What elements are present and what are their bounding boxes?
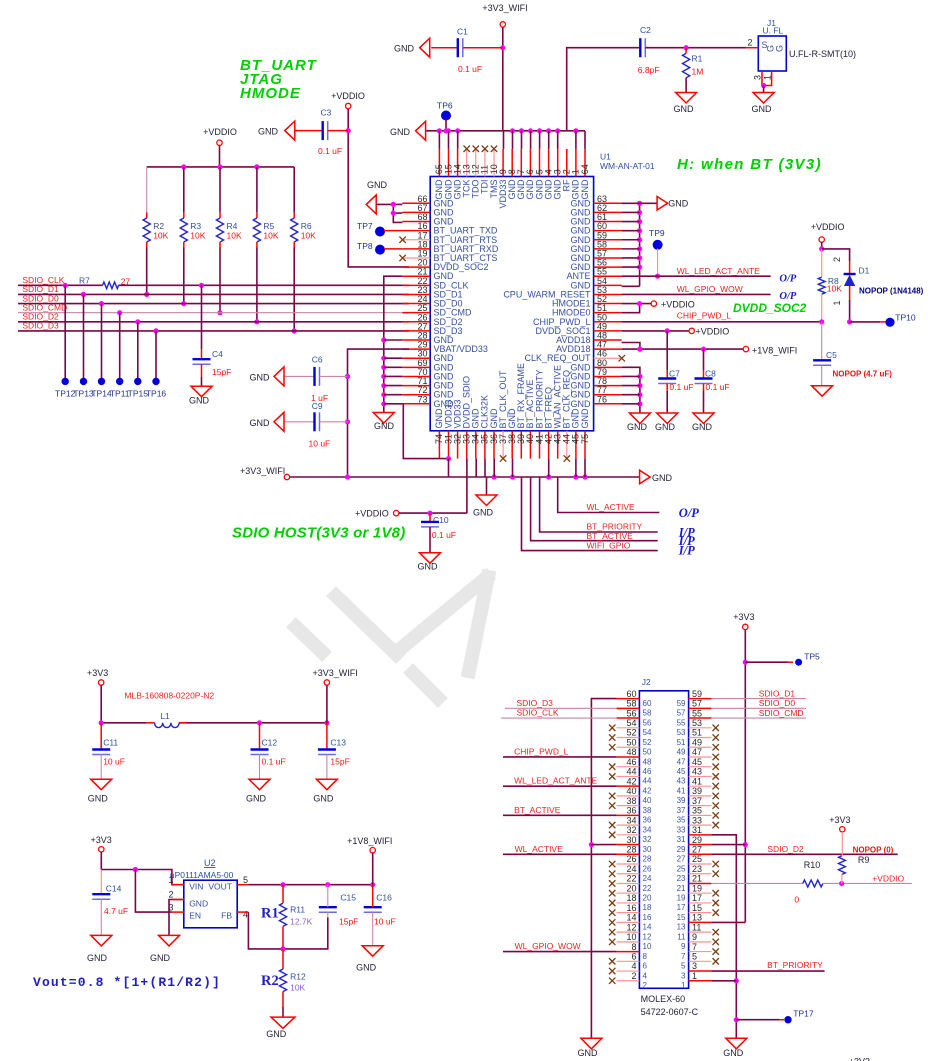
ground GND left bus — [373, 413, 394, 424]
node pin29 junction — [743, 842, 748, 847]
node right GND bus — [637, 210, 642, 215]
pin 53 of J2 (right) — [689, 727, 712, 729]
pin 17 (BT_UART_RTS) left — [402, 239, 430, 241]
svg-text:35: 35 — [692, 806, 702, 816]
node R3 bottom — [181, 301, 186, 306]
svg-text:1M: 1M — [692, 67, 704, 77]
node top bus — [555, 128, 560, 133]
pin 34 (GND) bottom — [475, 431, 477, 459]
node R11 top — [280, 882, 285, 887]
svg-text:50: 50 — [626, 737, 636, 747]
svg-text:TP6: TP6 — [437, 101, 453, 111]
svg-text:GND: GND — [674, 104, 695, 114]
ground GND at R12 — [271, 1017, 295, 1028]
svg-text:SDIO_D0: SDIO_D0 — [759, 698, 796, 708]
pin 16 of J2 (left) — [617, 912, 640, 914]
pin 50 of J2 (left) — [617, 746, 640, 748]
svg-text:+VDDIO: +VDDIO — [355, 509, 389, 519]
svg-text:47: 47 — [692, 747, 702, 757]
svg-text:33: 33 — [692, 815, 702, 825]
node right GND bus — [637, 219, 642, 224]
node right GND bus — [637, 237, 642, 242]
svg-text:16: 16 — [626, 903, 636, 913]
wire +3V3_WIFI down — [326, 685, 328, 723]
pin 73 (GND) left — [402, 403, 430, 405]
svg-text:GND: GND — [313, 794, 334, 804]
node right GND bus — [637, 264, 642, 269]
node row66 — [391, 202, 396, 207]
pin 58 of J2 (left) — [617, 707, 640, 709]
svg-text:20: 20 — [643, 894, 652, 903]
testpoint TP13 — [80, 378, 87, 385]
svg-text:6: 6 — [643, 962, 648, 971]
svg-text:GND: GND — [150, 953, 171, 963]
svg-text:+VDDIO: +VDDIO — [811, 222, 845, 232]
pin 55 (ANTE) right — [594, 275, 622, 277]
svg-text:59: 59 — [677, 699, 686, 708]
svg-text:+VDDIO: +VDDIO — [331, 91, 365, 101]
svg-text:40: 40 — [643, 796, 652, 805]
svg-text:GND: GND — [189, 396, 210, 406]
svg-text:O/P: O/P — [779, 274, 797, 285]
svg-text:58: 58 — [626, 699, 636, 709]
node J1 ground junction — [761, 83, 766, 88]
svg-text:+VDDIO: +VDDIO — [203, 127, 237, 137]
svg-text:GND: GND — [723, 1048, 744, 1058]
pin 58 (GND) right — [594, 248, 622, 250]
pin 22 of J2 (left) — [617, 882, 640, 884]
node R4 bottom — [217, 310, 222, 315]
node C8 junction — [701, 347, 706, 352]
node top bus — [446, 128, 451, 133]
svg-text:26: 26 — [643, 864, 652, 873]
wire right GND bus rows 63-56,54 — [622, 285, 640, 287]
svg-text:+3V3: +3V3 — [849, 1057, 870, 1061]
svg-text:MLB-160808-0220P-N2: MLB-160808-0220P-N2 — [124, 691, 214, 701]
pin 37 of J2 (right) — [689, 805, 712, 807]
svg-text:4: 4 — [243, 910, 248, 920]
wire R10 to pin 21 — [711, 882, 802, 884]
pin 57 of J2 (right) — [689, 707, 712, 709]
pin 45 (GND) bottom — [575, 431, 577, 459]
pin 54 of J2 (left) — [617, 727, 640, 729]
wire CHIP_PWD_L to J2 — [503, 756, 617, 758]
svg-text:12.7K: 12.7K — [290, 917, 313, 927]
wire GND bus row — [622, 385, 640, 387]
wire GND bus to pin — [384, 385, 403, 387]
svg-text:GND: GND — [580, 179, 590, 200]
wire GND bus row — [622, 403, 640, 405]
pin 29 of J2 (right) — [689, 844, 712, 846]
pin 14 of J2 (left) — [617, 921, 640, 923]
pin 35 of J2 (right) — [689, 814, 712, 816]
wire CHIP_PWD_L — [622, 321, 822, 323]
wire GND bus row — [622, 230, 640, 232]
svg-text:CHIP_PWD_L: CHIP_PWD_L — [677, 311, 732, 321]
svg-text:TP16: TP16 — [146, 389, 167, 399]
svg-text:C4: C4 — [212, 349, 223, 359]
wire pin60 GND vertical — [591, 699, 616, 1039]
svg-text:31: 31 — [677, 835, 686, 844]
wire bottom pin riser — [584, 459, 586, 477]
resistor R5 — [256, 167, 258, 213]
svg-text:48: 48 — [626, 747, 636, 757]
svg-text:17: 17 — [677, 903, 686, 912]
svg-text:19: 19 — [677, 894, 686, 903]
wire U2 GND pin — [169, 900, 184, 936]
pin 24 (SD_D0) left — [402, 303, 430, 305]
svg-text:+3V3: +3V3 — [91, 835, 112, 845]
svg-text:EN: EN — [189, 911, 201, 921]
pin 20 (DVDD_SOC2) left — [402, 266, 430, 268]
pin 42 (BT_FREQ) bottom — [548, 431, 550, 459]
pin 70 (GND) left — [402, 375, 430, 377]
pin 10 (TMS) top — [493, 149, 495, 177]
wire to TP14 — [101, 304, 103, 382]
node top bus — [546, 128, 551, 133]
svg-text:17: 17 — [692, 893, 702, 903]
svg-text:TP5: TP5 — [804, 652, 820, 662]
pin 15 of J2 (right) — [689, 912, 712, 914]
svg-text:13: 13 — [677, 923, 686, 932]
svg-text:28: 28 — [626, 844, 636, 854]
pin 65 (GND) top — [438, 149, 440, 177]
svg-text:51: 51 — [692, 728, 702, 738]
svg-text:21: 21 — [677, 884, 686, 893]
svg-text:4.7 uF: 4.7 uF — [104, 906, 128, 916]
pin 46 (CLK_REQ_OUT) right — [594, 357, 622, 359]
wire pin13 link — [711, 921, 745, 923]
ground GND at C12 — [249, 779, 270, 790]
node C12 top — [257, 720, 262, 725]
svg-text:57: 57 — [677, 709, 686, 718]
svg-text:2: 2 — [631, 971, 636, 981]
svg-text:27: 27 — [677, 855, 686, 864]
svg-text:R12: R12 — [290, 972, 306, 982]
svg-text:22: 22 — [643, 884, 652, 893]
pin 74 (GND) bottom — [438, 431, 440, 459]
node bottom bus — [573, 474, 578, 479]
svg-text:39: 39 — [677, 796, 686, 805]
svg-text:29: 29 — [677, 845, 686, 854]
node AVDD18 junction — [637, 347, 642, 352]
svg-text:H: when BT (3V3): H: when BT (3V3) — [677, 156, 822, 173]
pin 69 (GND) left — [402, 366, 430, 368]
svg-text:0.1 uF: 0.1 uF — [669, 382, 693, 392]
pin 48 (AVDD18) right — [594, 339, 622, 341]
resistor R1 — [685, 48, 687, 54]
ground GND at C13 — [316, 779, 337, 790]
svg-text:10K: 10K — [190, 231, 205, 241]
wire +3V3 to VIN — [100, 852, 102, 870]
svg-text:29: 29 — [692, 835, 702, 845]
node bottom bus — [492, 474, 497, 479]
pin 5 (GND) top — [539, 149, 541, 177]
node left GND bus — [381, 365, 386, 370]
svg-text:36: 36 — [643, 816, 652, 825]
wire pin30 link — [591, 844, 616, 846]
node C7 junction — [665, 328, 670, 333]
svg-text:0.1 uF: 0.1 uF — [432, 530, 456, 540]
svg-text:I/P: I/P — [678, 544, 695, 558]
svg-text:18: 18 — [626, 893, 636, 903]
svg-text:SDIO_D2: SDIO_D2 — [767, 844, 804, 854]
svg-text:GND: GND — [88, 794, 109, 804]
pin 52 (HMODE1) right — [594, 303, 622, 305]
svg-text:GND: GND — [473, 508, 494, 518]
resistor R11 — [282, 885, 284, 903]
svg-text:53: 53 — [677, 728, 686, 737]
pin 33 (DVDD_SDIO) bottom — [466, 431, 468, 459]
svg-text:R1: R1 — [692, 54, 703, 64]
svg-text:+3V3_WIFI: +3V3_WIFI — [240, 466, 285, 476]
svg-text:44: 44 — [643, 777, 652, 786]
pin 42 of J2 (left) — [617, 785, 640, 787]
node SDIO_CMD testpoint junction — [117, 310, 122, 315]
svg-text:R7: R7 — [79, 275, 90, 285]
wire GND bus row — [622, 248, 640, 250]
svg-text:C16: C16 — [376, 893, 392, 903]
wire R4 to SDIO line — [219, 248, 221, 313]
svg-text:GND: GND — [418, 562, 439, 572]
pin 59 (GND) right — [594, 239, 622, 241]
pin 55 of J2 (right) — [689, 717, 712, 719]
svg-text:30: 30 — [626, 835, 636, 845]
wire top pin riser — [539, 131, 541, 149]
svg-text:56: 56 — [626, 708, 636, 718]
wire bottom pin riser — [512, 459, 514, 477]
wire pin 9 riser — [503, 131, 505, 149]
node right GND bus — [637, 246, 642, 251]
pin 17 of J2 (right) — [689, 902, 712, 904]
wire bottom pin riser — [493, 459, 495, 477]
wire pin31 GND vertical — [711, 835, 736, 1038]
svg-text:42: 42 — [626, 776, 636, 786]
wire top pin riser — [575, 131, 577, 149]
pin 7 (GND) top — [520, 149, 522, 177]
svg-text:47: 47 — [677, 757, 686, 766]
svg-text:32: 32 — [626, 825, 636, 835]
node top bus — [537, 128, 542, 133]
svg-text:11: 11 — [692, 922, 701, 932]
pin 12 of J2 (left) — [617, 931, 640, 933]
svg-text:FB: FB — [221, 911, 232, 921]
testpoint TP16 — [152, 378, 159, 385]
svg-text:10K: 10K — [290, 983, 305, 993]
svg-text:38: 38 — [626, 796, 636, 806]
wire GND bus to pin — [384, 366, 403, 368]
pin 39 (BT_RX_FRAME) bottom — [520, 431, 522, 459]
wire +1V8_WIFI riser — [372, 853, 374, 885]
svg-text:VOUT: VOUT — [208, 882, 232, 892]
wire J1 to ground — [763, 86, 765, 93]
svg-text:49: 49 — [692, 737, 702, 747]
wire TP5 — [745, 661, 788, 663]
node D1 bottom — [847, 319, 852, 324]
svg-text:34: 34 — [643, 825, 652, 834]
pin 2 of J2 (left) — [617, 980, 640, 982]
node C15 top — [325, 882, 330, 887]
node top bus — [528, 128, 533, 133]
power +VDDIO at HMODE — [651, 301, 656, 306]
wire SDIO_CLK — [18, 284, 103, 286]
node SDIO_D3 testpoint junction — [153, 328, 158, 333]
svg-text:SDIO_D3: SDIO_D3 — [517, 698, 554, 708]
svg-text:WL_GPIO_WOW: WL_GPIO_WOW — [515, 941, 581, 951]
svg-text:NOPOP (0): NOPOP (0) — [853, 846, 894, 855]
svg-text:20: 20 — [626, 883, 636, 893]
svg-text:28: 28 — [643, 855, 652, 864]
wire DVDD_SOC1 to +VDDIO — [622, 330, 689, 332]
ground GND at C11 — [91, 779, 112, 790]
wire R6 to SDIO line — [293, 248, 295, 331]
svg-text:C14: C14 — [106, 884, 122, 894]
svg-text:2: 2 — [832, 257, 842, 262]
testpoint TP11 — [116, 378, 123, 385]
pin 79 (GND) right — [594, 375, 622, 377]
ground GND at C7 — [657, 413, 678, 424]
svg-text:18: 18 — [643, 903, 652, 912]
wire R2 to SDIO line — [146, 248, 148, 295]
pin 18 (BT_UART_RXD) left — [402, 248, 430, 250]
svg-text:15pF: 15pF — [339, 917, 358, 927]
svg-text:12: 12 — [626, 922, 636, 932]
wire pin1 link — [711, 980, 736, 982]
wire GND to pins 66-68 — [376, 203, 402, 205]
svg-text:38: 38 — [643, 806, 652, 815]
wire C2 to J1 pin 2 — [645, 47, 746, 49]
pin 32 of J2 (left) — [617, 834, 640, 836]
pin 11 of J2 (right) — [689, 931, 712, 933]
pin 2 (RF) top — [566, 149, 568, 177]
svg-text:2: 2 — [643, 981, 648, 990]
svg-text:42: 42 — [643, 786, 652, 795]
wire SDIO_CLK to J2 — [501, 717, 617, 719]
svg-text:60: 60 — [626, 689, 636, 699]
svg-text:49: 49 — [677, 748, 686, 757]
svg-text:46: 46 — [643, 767, 652, 776]
svg-text:WL_LED_ACT_ANTE: WL_LED_ACT_ANTE — [514, 776, 597, 786]
svg-text:C8: C8 — [705, 369, 716, 379]
pin 72 (GND) left — [402, 394, 430, 396]
node C11 top — [99, 720, 104, 725]
wire WL_LED_ACT_ANTE to J2 — [503, 785, 617, 787]
node HMODE junction — [637, 301, 642, 306]
pin 3 (GND) top — [557, 149, 559, 177]
pin 61 (GND) right — [594, 221, 622, 223]
svg-text:15: 15 — [692, 903, 702, 913]
node right lower GND bus — [637, 401, 642, 406]
pin 20 of J2 (left) — [617, 892, 640, 894]
svg-text:DVDD_SOC2: DVDD_SOC2 — [733, 301, 807, 315]
pin 49 of J2 (right) — [689, 746, 712, 748]
svg-text:GND: GND — [374, 421, 395, 431]
wire SDIO_CMD — [18, 312, 409, 314]
wire bottom pin riser — [484, 459, 486, 477]
node R1 junction — [684, 45, 689, 50]
svg-text:25: 25 — [677, 864, 686, 873]
node R9 bottom — [839, 881, 844, 886]
svg-text:54: 54 — [626, 718, 636, 728]
node top bus — [437, 128, 442, 133]
pin 56 (GND) right — [594, 266, 622, 268]
wire WL_GPIO_WOW to J2 — [503, 951, 617, 953]
pin 36 (GND) bottom — [493, 431, 495, 459]
svg-text:+3V3: +3V3 — [733, 612, 754, 622]
svg-text:+3V3_WIFI: +3V3_WIFI — [482, 3, 527, 13]
svg-text:R2: R2 — [153, 221, 164, 231]
node SDIO_D1 testpoint junction — [81, 292, 86, 297]
wire GND bus to pin — [384, 375, 403, 377]
node R4 top — [217, 164, 222, 169]
svg-text:U.FL-R-SMT(10): U.FL-R-SMT(10) — [789, 49, 856, 59]
svg-text:GND: GND — [580, 408, 590, 429]
resistor R6 — [293, 167, 295, 213]
svg-text:35: 35 — [677, 816, 686, 825]
node C10 junction — [427, 510, 432, 515]
pin 53 (CPU_WARM_RESET) right — [594, 293, 622, 295]
pin 41 of J2 (right) — [689, 785, 712, 787]
svg-text:WIFI_GPIO: WIFI_GPIO — [587, 540, 631, 550]
wire +VDDIO to DVDD_SOC2 pin 20 — [348, 109, 409, 267]
pin 31 of J2 (right) — [689, 834, 712, 836]
svg-text:R2: R2 — [261, 973, 279, 989]
wire top GND bus — [425, 130, 585, 132]
pin 30 of J2 (left) — [617, 844, 640, 846]
resistor R12 — [282, 949, 284, 969]
svg-text:5: 5 — [692, 952, 697, 962]
svg-text:53: 53 — [692, 718, 702, 728]
svg-text:+3V3: +3V3 — [829, 815, 850, 825]
node top bus — [573, 128, 578, 133]
pin 29 (VBAT/VDD33) left — [402, 348, 430, 350]
wire R8 to C5 — [821, 322, 823, 360]
svg-text:+1V8_WIFI: +1V8_WIFI — [752, 346, 797, 356]
pin 18 of J2 (left) — [617, 902, 640, 904]
node right GND bus — [637, 201, 642, 206]
wire GND bus to pin — [384, 403, 403, 405]
pin 6 (GND) top — [529, 149, 531, 177]
wire GND bus to pin — [384, 394, 403, 396]
pin 41 (BT_PRIORITY) bottom — [539, 431, 541, 459]
wire R5 to SDIO line — [256, 248, 258, 322]
svg-text:8: 8 — [631, 942, 636, 952]
wire BT_ACTIVE — [531, 477, 658, 541]
node C3 junction — [346, 128, 351, 133]
wire SDIO_D2 from J2 — [711, 853, 897, 855]
wire +VDDIO to R8/D1 — [821, 242, 823, 249]
svg-text:SDIO_CLK: SDIO_CLK — [517, 708, 559, 718]
pin 60 of J2 (left) — [617, 698, 640, 700]
pin 8 of J2 (left) — [617, 951, 640, 953]
svg-text:+VDDIO: +VDDIO — [661, 299, 695, 309]
svg-text:GND: GND — [627, 422, 648, 432]
wire BT_PRIORITY from J2 — [711, 970, 824, 972]
svg-text:1: 1 — [692, 971, 697, 981]
pin 57 (GND) right — [594, 257, 622, 259]
svg-text:WL_LED_ACT_ANTE: WL_LED_ACT_ANTE — [677, 266, 760, 276]
wire SDIO_D1 — [18, 293, 409, 295]
svg-text:2: 2 — [747, 38, 752, 48]
node pin30 junction — [589, 842, 594, 847]
pin 1 of J2 (right) — [689, 980, 712, 982]
svg-text:GND: GND — [246, 794, 267, 804]
resistor R2 — [146, 167, 148, 213]
svg-text:TP14: TP14 — [91, 389, 112, 399]
svg-text:10 uF: 10 uF — [103, 757, 125, 767]
pin 33 of J2 (right) — [689, 824, 712, 826]
pin 6 of J2 (left) — [617, 960, 640, 962]
